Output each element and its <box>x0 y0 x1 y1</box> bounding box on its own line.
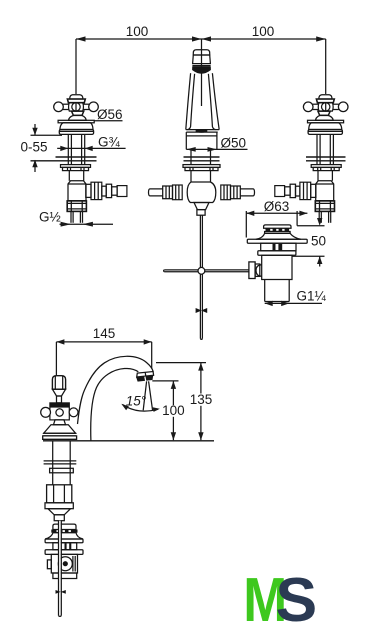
label Ø50 with leader and arrows <box>186 136 247 152</box>
spout tip cap <box>193 50 209 55</box>
hex nut side <box>47 485 72 503</box>
left valve assembly (front view) <box>54 95 127 223</box>
tailpiece <box>70 211 72 222</box>
cone below tee <box>194 203 209 210</box>
svg-text:G¾: G¾ <box>98 135 121 150</box>
waste flange rim <box>247 239 307 243</box>
pop-up waste (side view) <box>45 524 83 578</box>
waste neck side <box>53 543 77 550</box>
spout base <box>186 129 219 131</box>
svg-text:135: 135 <box>190 392 213 407</box>
extension line spout <box>201 39 203 106</box>
svg-text:100: 100 <box>162 403 185 418</box>
rod clip <box>196 308 208 313</box>
faucet side view <box>41 356 214 520</box>
tee left ribbed <box>163 186 173 199</box>
aerator nose end cap <box>137 372 154 378</box>
spout (front view) <box>149 50 255 340</box>
base cylinder <box>185 132 187 149</box>
label G1/2 with leader and arrows <box>39 210 113 227</box>
ball housing bulge <box>256 265 262 277</box>
escutcheon dome <box>60 123 93 130</box>
tee right pipe <box>240 189 254 196</box>
stream wedge lines <box>143 381 146 410</box>
angle 15 degrees <box>121 381 160 412</box>
waste lower plate <box>258 251 296 256</box>
spout mounting flange <box>183 165 220 168</box>
deck lines left valve <box>31 157 97 161</box>
arm right <box>83 103 89 105</box>
escutcheon top plate <box>58 120 94 123</box>
tee body <box>187 182 216 203</box>
spout body inner left <box>187 74 194 130</box>
aerator dark band <box>192 67 211 74</box>
bell side view <box>44 425 76 434</box>
svg-text:Ø56: Ø56 <box>97 107 123 122</box>
cross hub <box>69 103 84 111</box>
connector <box>54 515 64 521</box>
spout arc inner <box>91 368 139 440</box>
cross ball left <box>54 102 64 112</box>
finial taper <box>52 389 65 396</box>
logo MS <box>243 565 317 635</box>
spout upper section <box>193 55 211 64</box>
svg-text:Ø63: Ø63 <box>264 199 290 214</box>
handle lower stem <box>54 420 66 425</box>
spout lower shank <box>190 171 192 182</box>
lower shank <box>68 171 70 181</box>
shank below deck <box>52 442 54 485</box>
threaded shank <box>67 135 69 165</box>
svg-text:Ø50: Ø50 <box>221 136 247 151</box>
lever clamp <box>249 262 255 279</box>
deck lines spout <box>184 156 220 158</box>
deck line <box>43 440 214 442</box>
deck lines right valve <box>306 157 346 161</box>
waste body side <box>51 554 77 573</box>
valve body <box>68 181 86 201</box>
aerator nose dark band <box>136 376 153 382</box>
waste body bottom side <box>53 573 77 579</box>
handle neck <box>72 111 84 115</box>
pop-up rod vertical <box>199 215 201 338</box>
bottom hex nut <box>67 201 86 212</box>
cross handle finial <box>70 95 83 99</box>
pop-up waste (front view) <box>247 225 307 302</box>
rod clip side <box>56 590 66 594</box>
waste neck with slots <box>261 243 296 251</box>
extension line right handle <box>325 39 327 94</box>
label G3/4 with leader and arrows <box>57 135 125 152</box>
lower band <box>45 503 73 509</box>
waste body box <box>262 255 292 279</box>
under flange <box>50 468 74 473</box>
side outlet stub <box>86 184 91 197</box>
dimension 100 vertical <box>152 381 184 440</box>
angle arc arrow <box>123 405 159 412</box>
svg-text:0-55: 0-55 <box>20 140 47 155</box>
extension line left handle <box>75 39 77 94</box>
dimension 135 <box>156 363 212 441</box>
svg-text:145: 145 <box>93 326 116 341</box>
cone <box>48 509 71 515</box>
right valve assembly (mirrored) <box>275 95 348 223</box>
horizontal rod <box>164 269 249 271</box>
dimension 0-55 <box>20 124 62 172</box>
svg-text:100: 100 <box>252 24 275 39</box>
dimension line 100+100 top <box>76 36 326 41</box>
handle collar band <box>67 99 85 103</box>
waste flange bowl <box>256 233 301 239</box>
supply rod / pop-up rod (side view, in front) <box>56 521 66 617</box>
tee left hex <box>173 185 183 200</box>
mounting flange <box>61 165 91 168</box>
dimension 145 <box>56 326 151 376</box>
neck flare skirt <box>69 115 87 120</box>
svg-text:G½: G½ <box>39 210 61 225</box>
spout body inner right <box>208 74 215 130</box>
side outlet hex <box>91 182 102 199</box>
cross ball right <box>89 102 99 112</box>
handle ball left <box>41 407 51 417</box>
tee right hex <box>221 185 231 200</box>
dimension Ø63 <box>246 199 307 238</box>
svg-text:50: 50 <box>311 234 326 249</box>
waste lower plate side <box>45 550 83 555</box>
waste bowl side <box>45 533 83 539</box>
arm left <box>63 103 69 105</box>
spout body outer left <box>186 73 191 129</box>
waste rim side <box>45 539 83 543</box>
dimension 50 <box>292 218 326 267</box>
spout body outer right <box>212 73 219 129</box>
escutcheon base band <box>59 130 93 135</box>
waste plug knob <box>264 225 291 228</box>
side outlet pipe <box>102 186 106 196</box>
spout arc outer <box>78 356 154 424</box>
tee right ribbed <box>231 186 241 199</box>
rod adapter block <box>197 210 205 216</box>
label Ø56 with leader <box>95 107 123 122</box>
rod joint circle <box>198 267 205 274</box>
svg-text:S: S <box>276 565 318 635</box>
handle ball right <box>69 408 78 417</box>
tee left pipe <box>149 189 163 196</box>
cross handle side <box>50 403 69 420</box>
waste tube <box>264 280 266 302</box>
svg-text:G1¼: G1¼ <box>297 289 327 304</box>
undersink lines <box>44 460 77 462</box>
label G1 1/4 with leader and arrows <box>265 289 327 307</box>
waste knob side <box>53 524 76 529</box>
finial barrel <box>52 376 65 390</box>
svg-text:100: 100 <box>126 24 149 39</box>
